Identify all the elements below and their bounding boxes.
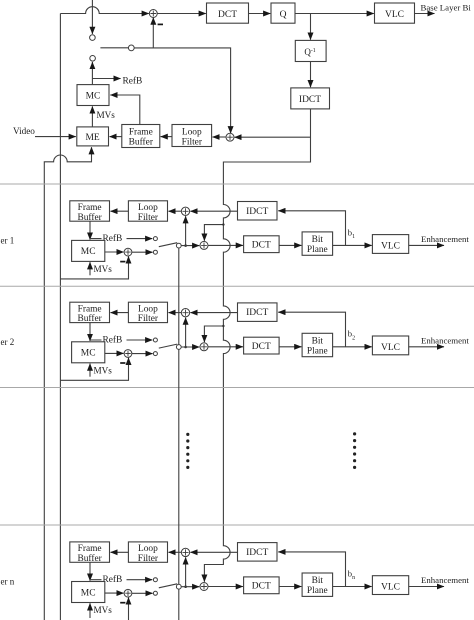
- wire+label: MVs dangling arrow into MC (layer 1): [89, 262, 91, 275]
- node: junction of A3 riser on switch wire (layer n): [184, 585, 187, 588]
- svg-text:Buffer: Buffer: [77, 313, 102, 324]
- wire: Q to VLC: [295, 13, 374, 15]
- svg-text:Buffer: Buffer: [77, 553, 102, 564]
- svg-text:VLC: VLC: [381, 241, 400, 251]
- adder A4 (layer 2): [124, 350, 132, 358]
- svg-text:Bit: Bit: [312, 337, 324, 347]
- block: Loop Filter (enh layer 2): [128, 302, 167, 322]
- svg-text:MVs: MVs: [94, 365, 113, 375]
- wire: switch output up into A3 (layer n): [185, 557, 187, 586]
- separator line 4 between sections: [0, 524, 474, 526]
- wire: video rail branch into A4 minus input (layer 2): [60, 358, 128, 381]
- svg-text:RefB: RefB: [123, 76, 143, 87]
- node: junction of A3 riser on switch wire (layer 1): [184, 244, 187, 247]
- block: Loop Filter (enh layer n): [128, 542, 167, 562]
- wire: IDCT output to A3 (layer 1): [190, 210, 237, 212]
- svg-text:RefB: RefB: [103, 233, 123, 244]
- wire: VLC to enhancement bitstream output (layer n): [409, 586, 444, 588]
- wire: RefB tap to switch contact (layer n): [90, 579, 152, 581]
- svg-text:Loop: Loop: [138, 305, 158, 315]
- wire: DCT to Bit Plane (layer n): [279, 586, 301, 588]
- wire: Loop Filter to Frame Buffer (layer 1): [111, 210, 129, 212]
- block: Frame Buffer (base layer): [122, 125, 160, 148]
- wire: base-recon rail branch down into A5 (layer 2): [204, 326, 223, 342]
- switch arm (layer 1): [159, 243, 177, 247]
- svg-text:Frame: Frame: [129, 128, 153, 138]
- wire: switch output up into A3 (layer 1): [185, 216, 187, 245]
- svg-text:Q: Q: [280, 10, 287, 20]
- wire: Frame Buffer to ME: [110, 136, 122, 138]
- wire: MC output to adder A4 (layer 1): [105, 251, 124, 253]
- label: RefB (layer 2): [102, 334, 127, 343]
- wire: switch pivot to subtractor A1 and to adder A2 top: [134, 48, 230, 133]
- wire: RefB tap to switch contact (layer 2): [90, 339, 152, 341]
- adder A3 (loop adder, layer 1): [181, 207, 189, 215]
- block: VLC (base layer): [375, 3, 415, 23]
- wire: video rail branch into A4 minus input (layer 1): [60, 256, 128, 279]
- block: Bit Plane coder (layer 2): [302, 333, 333, 356]
- block: MC (enh layer n): [72, 582, 105, 603]
- wire: MC output to adder A4 (layer 2): [105, 352, 124, 354]
- block: Q-1 (inverse quantizer): [295, 40, 326, 61]
- wire: switch pivot to subtractor A5 (layer 2): [181, 346, 199, 348]
- adder A3 (loop adder, layer n): [181, 548, 189, 556]
- wire+label: MVs dangling arrow into MC (layer 2): [89, 364, 91, 377]
- wire: IDCT output to A3 (layer 2): [190, 312, 237, 314]
- svg-text:Filter: Filter: [138, 314, 159, 324]
- wire: Loop Filter to Frame Buffer: [161, 136, 172, 138]
- wire: Q output down to inverse quantizer: [310, 14, 312, 40]
- svg-text:DCT: DCT: [252, 582, 271, 592]
- wire: Frame Buffer down into MC (layer 2): [89, 323, 91, 341]
- svg-text:MVs: MVs: [94, 264, 113, 274]
- svg-text:DCT: DCT: [252, 241, 271, 251]
- svg-text:Loop: Loop: [182, 128, 202, 138]
- svg-text:IDCT: IDCT: [246, 207, 268, 217]
- node: junction of A3 riser on switch wire (layer 2): [184, 346, 187, 349]
- svg-text:VLC: VLC: [381, 343, 400, 353]
- svg-text:Filter: Filter: [182, 138, 203, 148]
- adder A4 (layer 1): [124, 248, 132, 256]
- wire: adder A3 to Loop Filter (layer 2): [169, 312, 182, 314]
- block: MC (enh layer 1): [72, 240, 105, 261]
- node: switch pivot (layer n): [176, 584, 181, 589]
- wire: video input rail top segment with hop over MC line, into adder A1: [60, 7, 148, 14]
- separator line 2 between sections: [0, 285, 474, 287]
- svg-text:Loop: Loop: [138, 203, 158, 213]
- wire: base reconstruction rail from IDCT down-left-down with hops, ending at layer-n A5: [204, 109, 310, 582]
- label: RefB (layer 1): [102, 233, 127, 242]
- adder A5 (enh residual subtractor, layer n): [200, 583, 208, 591]
- wire: Bit Plane to VLC (layer n): [333, 586, 372, 588]
- separator line 3 between sections: [0, 387, 474, 389]
- wire: A5 to DCT (layer 2): [208, 346, 243, 348]
- wire: Loop Filter to Frame Buffer (layer 2): [111, 312, 129, 314]
- svg-text:Bit: Bit: [312, 576, 324, 586]
- svg-text:er 1: er 1: [1, 235, 15, 245]
- wire: adder A3 to Loop Filter (layer n): [169, 551, 182, 553]
- block: MC (motion compensation, base): [77, 85, 109, 106]
- node: switch contact lower (layer 2): [153, 352, 157, 356]
- wire: video rail branch into A4 minus input (layer n, clipped at bottom): [128, 598, 130, 620]
- svg-text:DCT: DCT: [218, 10, 237, 20]
- adder A4 (layer n): [124, 589, 132, 597]
- svg-text:Bit: Bit: [312, 235, 324, 245]
- wire: Frame Buffer down into MC (layer 1): [89, 221, 91, 239]
- node: switch contact lower (layer n): [153, 591, 157, 595]
- ellipsis dots (right column, omitted layers): [353, 432, 356, 435]
- wire: switch-pivot chain layer2 down to layer n: [178, 350, 180, 585]
- svg-text:MVs: MVs: [97, 110, 116, 120]
- block: Frame Buffer (enh layer 2): [70, 302, 110, 322]
- wire+label: MVs dangling arrow into MC (layer n): [89, 603, 91, 618]
- wire: reconstructed-frame rail to ME bottom (with hop over video rail): [44, 147, 91, 620]
- block: MC (enh layer 2): [72, 342, 105, 363]
- block: ME (motion estimation): [77, 127, 109, 146]
- wire: A5 to DCT (layer n): [208, 586, 243, 588]
- wire: left video rail (vertical x=60.4 full height): [59, 14, 61, 620]
- wire: MC output to adder A4 (layer n): [105, 592, 124, 594]
- svg-text:IDCT: IDCT: [299, 95, 321, 105]
- block: IDCT (enh layer 1): [238, 202, 278, 221]
- node: switch contact (top) of base-layer switch: [90, 35, 96, 41]
- svg-text:Plane: Plane: [307, 245, 328, 255]
- svg-text:Enhancement: Enhancement: [421, 575, 469, 585]
- wire: current-frame line from top edge down into switch contact: [91, 0, 93, 34]
- node: switch contact upper (layer 1): [153, 237, 157, 241]
- label: minus sign at A1: [158, 23, 163, 25]
- node: switch contact upper (layer n): [153, 578, 157, 582]
- wire: Loop Filter to Frame Buffer (layer n): [111, 551, 129, 553]
- wire: A4 output to lower switch contact (layer n): [132, 592, 153, 594]
- wire: RefB tap to switch contact (layer 1): [90, 238, 152, 240]
- wire: MC output up into bottom switch contact: [91, 62, 93, 85]
- block: VLC (enh layer 1): [372, 235, 408, 254]
- switch arm (layer 2): [159, 344, 177, 348]
- wire: prediction up into A1 minus input: [152, 18, 154, 48]
- wire+label: MVs from ME to MC: [91, 106, 93, 127]
- svg-text:Base Layer Bi: Base Layer Bi: [421, 3, 472, 13]
- svg-text:Plane: Plane: [307, 586, 328, 596]
- wire: switch-pivot chain layer1 to layer2: [178, 248, 180, 344]
- wire: A4 output to lower switch contact (layer 2): [132, 353, 153, 355]
- svg-text:Enhancement: Enhancement: [421, 335, 469, 345]
- block: Frame Buffer (enh layer 1): [70, 201, 110, 221]
- block: IDCT (base layer): [291, 88, 330, 109]
- block: Bit Plane coder (layer 1): [302, 232, 333, 255]
- block: Bit Plane coder (layer n): [302, 573, 333, 596]
- svg-text:MVs: MVs: [94, 605, 113, 615]
- block: Loop Filter (enh layer 1): [128, 201, 167, 221]
- wire: bit-plane tap b1 back into IDCT (layer 1): [278, 211, 345, 246]
- node: switch pivot (layer 2): [176, 345, 181, 350]
- svg-text:MC: MC: [81, 349, 96, 359]
- svg-text:Buffer: Buffer: [129, 137, 154, 148]
- ellipsis dots (left column, omitted layers): [186, 433, 189, 436]
- svg-text:Frame: Frame: [78, 305, 102, 315]
- wire: bit-plane tap bn back into IDCT (layer n): [278, 552, 345, 587]
- block: IDCT (enh layer n): [238, 543, 278, 562]
- label: RefB (layer n): [102, 574, 127, 583]
- block: DCT (enh layer 1): [244, 236, 280, 253]
- switch arm (layer n): [159, 584, 177, 588]
- svg-text:MC: MC: [86, 91, 101, 101]
- label: minus sign at A4 (layer 2): [120, 362, 125, 364]
- wire: base-recon rail branch down into A5 (layer 1): [204, 225, 223, 241]
- adder A2 (base reconstruction adder): [226, 133, 234, 141]
- node: switch contact upper (layer 2): [153, 338, 157, 342]
- wire+label: RefB tap off MC line: [92, 78, 120, 80]
- wire: switch pivot to subtractor A5 (layer n): [181, 586, 199, 588]
- block: Loop Filter (base layer): [172, 125, 212, 147]
- separator line 1 between sections: [0, 183, 474, 185]
- svg-text:Filter: Filter: [138, 213, 159, 223]
- adder A3 (loop adder, layer 2): [181, 309, 189, 317]
- wire: Frame Buffer top to MC input: [110, 95, 140, 125]
- svg-text:DCT: DCT: [252, 342, 271, 352]
- svg-text:IDCT: IDCT: [246, 308, 268, 318]
- svg-text:Plane: Plane: [307, 347, 328, 357]
- label: minus sign at A4 (layer 1): [120, 261, 125, 263]
- svg-text:VLC: VLC: [385, 10, 404, 20]
- block: DCT (base layer): [207, 3, 249, 23]
- svg-text:er n: er n: [1, 577, 15, 587]
- svg-text:MC: MC: [81, 247, 96, 257]
- wire: Bit Plane to VLC (layer 1): [333, 244, 372, 246]
- block: DCT (enh layer n): [244, 577, 280, 594]
- svg-text:MC: MC: [81, 588, 96, 598]
- wire: IDCT branch into adder A2: [235, 136, 311, 138]
- block: DCT (enh layer 2): [244, 337, 280, 354]
- wire: bit-plane tap b2 back into IDCT (layer 2): [278, 312, 345, 347]
- wire: IDCT output to A3 (layer n): [190, 551, 237, 553]
- svg-text:Enhancement: Enhancement: [421, 234, 469, 244]
- wire: DCT to Bit Plane (layer 1): [279, 244, 301, 246]
- label: minus sign at A4 (layer n): [120, 602, 125, 604]
- wire: A4 output to lower switch contact (layer 1): [132, 251, 153, 253]
- adder A1 (base residual subtractor): [149, 10, 157, 18]
- wire: switch output up into A3 (layer 2): [185, 318, 187, 347]
- svg-text:Frame: Frame: [78, 544, 102, 554]
- wire: switch pivot to subtractor A5 (layer 1): [181, 245, 199, 247]
- svg-text:Filter: Filter: [138, 554, 159, 564]
- svg-text:Video: Video: [13, 126, 35, 136]
- block: IDCT (enh layer 2): [238, 303, 278, 322]
- block: Frame Buffer (enh layer n): [70, 542, 110, 562]
- svg-text:Loop: Loop: [138, 544, 158, 554]
- wire: VLC to enhancement bitstream output (layer 2): [409, 346, 444, 348]
- block: VLC (enh layer n): [372, 576, 408, 595]
- wire: Frame Buffer down into MC (layer n): [89, 562, 91, 580]
- wire: adder A3 to Loop Filter (layer 1): [169, 210, 182, 212]
- svg-text:Buffer: Buffer: [77, 212, 102, 223]
- switch arm (base layer, open): [100, 47, 128, 49]
- wire: A2 to Loop Filter: [213, 136, 227, 138]
- wire: DCT to Bit Plane (layer 2): [279, 346, 301, 348]
- svg-text:IDCT: IDCT: [246, 548, 268, 558]
- block: Q (base quantizer): [271, 3, 295, 23]
- block: VLC (enh layer 2): [372, 336, 408, 355]
- svg-text:ME: ME: [85, 133, 99, 143]
- svg-text:er 2: er 2: [1, 337, 15, 347]
- wire: DCT to Q: [249, 13, 271, 15]
- adder A5 (enh residual subtractor, layer 1): [200, 241, 208, 249]
- node: switch contact lower (layer 1): [153, 250, 157, 254]
- wire: A5 to DCT (layer 1): [208, 244, 243, 246]
- node: switch pivot (base layer): [128, 45, 134, 51]
- wire: VLC to enhancement bitstream output (layer 1): [409, 244, 444, 246]
- node: switch contact (bottom) of base-layer switch: [90, 56, 96, 62]
- svg-text:VLC: VLC: [381, 583, 400, 593]
- svg-text:RefB: RefB: [103, 334, 123, 345]
- svg-text:RefB: RefB: [103, 574, 123, 585]
- wire: VLC to base bitstream output: [415, 13, 435, 15]
- wire: switch-pivot chain below layer n (clipped): [178, 589, 180, 620]
- wire: Bit Plane to VLC (layer 2): [333, 346, 372, 348]
- adder A5 (enh residual subtractor, layer 2): [200, 343, 208, 351]
- svg-text:Frame: Frame: [78, 203, 102, 213]
- wire: A1 to DCT: [157, 13, 206, 15]
- node: switch pivot (layer 1): [176, 243, 181, 248]
- wire: Q-1 to IDCT: [310, 62, 312, 88]
